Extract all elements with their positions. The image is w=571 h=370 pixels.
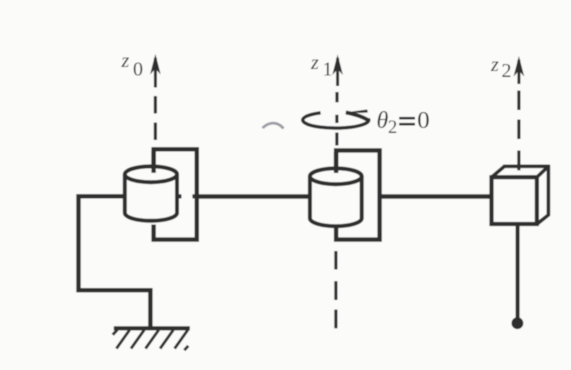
svg-text:0: 0 xyxy=(417,108,429,134)
svg-text:1: 1 xyxy=(323,59,333,81)
svg-text:z: z xyxy=(310,52,319,74)
svg-text:z: z xyxy=(121,50,130,72)
svg-text:2: 2 xyxy=(502,60,512,82)
svg-text:θ: θ xyxy=(377,108,389,134)
svg-text:z: z xyxy=(490,54,499,76)
svg-text:2: 2 xyxy=(388,118,397,138)
svg-text:0: 0 xyxy=(133,59,143,81)
